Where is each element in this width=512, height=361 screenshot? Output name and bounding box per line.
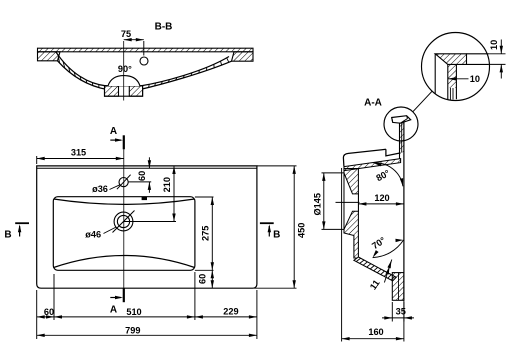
- backsplash hump: [343, 149, 386, 166]
- svg-text:275: 275: [201, 226, 211, 241]
- svg-text:60: 60: [137, 171, 147, 181]
- rim cap (small circle): [392, 116, 411, 124]
- svg-text:799: 799: [125, 325, 140, 335]
- faucet hole plan: [119, 178, 128, 187]
- marker A bottom: [110, 297, 121, 299]
- right wall outer edge: [403, 121, 405, 301]
- svg-text:315: 315: [71, 147, 86, 157]
- svg-text:B: B: [4, 229, 11, 240]
- svg-text:B-B: B-B: [155, 22, 173, 33]
- svg-text:510: 510: [126, 307, 141, 317]
- dim 11 thickness: [384, 260, 391, 283]
- drain dome: [108, 76, 140, 86]
- rim left block: [38, 52, 61, 61]
- drain block: [105, 86, 143, 96]
- bottom dim chain: [36, 290, 38, 339]
- countertop outline: [37, 166, 257, 288]
- section cut line A: [123, 135, 125, 149]
- overflow slot: [142, 197, 147, 200]
- svg-text:A: A: [110, 126, 117, 137]
- centerline hole: [336, 201, 360, 203]
- rim wall section strip (detail): [448, 64, 457, 88]
- dim 120: [358, 203, 404, 205]
- svg-text:229: 229: [223, 307, 238, 317]
- rim wall below cap: [400, 123, 404, 152]
- rim right block: [232, 52, 254, 61]
- dim 60 bottom: [211, 270, 213, 288]
- svg-text:120: 120: [374, 193, 389, 203]
- svg-text:A: A: [110, 304, 117, 315]
- svg-text:75: 75: [121, 29, 131, 39]
- basin top arc: [54, 199, 195, 204]
- svg-text:450: 450: [297, 223, 307, 238]
- bowl outer curve: [58, 61, 232, 91]
- svg-text:ø46: ø46: [85, 229, 101, 239]
- basin bowl hatch (between curves): [58, 55, 229, 88]
- svg-text:10: 10: [470, 74, 480, 84]
- basin bottom arc: [54, 256, 195, 268]
- rear wall column (hatched): [344, 169, 358, 259]
- rim wall face (detail): [434, 54, 436, 94]
- countertop band (hatched): [344, 159, 401, 171]
- dim 35: [391, 302, 393, 322]
- dim 450: [257, 165, 297, 167]
- dim phi145: [322, 172, 344, 174]
- svg-text:10: 10: [489, 40, 499, 50]
- marker B left: [15, 222, 29, 224]
- svg-text:160: 160: [368, 327, 383, 337]
- centerline drain: [123, 41, 125, 101]
- svg-text:B: B: [273, 229, 280, 240]
- basin floor band (hatched): [354, 257, 396, 281]
- dim 10 vertical (detail): [489, 53, 506, 55]
- faucet hole circle (B-B): [140, 57, 148, 65]
- svg-text:Ø145: Ø145: [313, 193, 323, 215]
- dim 60 top: [148, 157, 150, 168]
- angle 70deg: [373, 240, 404, 258]
- leader line to small circle: [413, 91, 432, 112]
- dim 210: [173, 166, 175, 222]
- drain plan: [114, 212, 133, 231]
- dim 10 horizontal (detail): [448, 78, 469, 80]
- angle 80deg: [374, 163, 403, 186]
- svg-text:A-A: A-A: [364, 98, 382, 109]
- countertop second top line: [37, 167, 257, 169]
- dim 275: [195, 196, 214, 198]
- svg-text:ø36: ø36: [92, 184, 108, 194]
- basin outline: [53, 197, 195, 271]
- dim 160: [341, 168, 343, 342]
- detail circle: [422, 33, 490, 101]
- ledge drop edge: [386, 149, 401, 156]
- svg-text:210: 210: [162, 177, 172, 192]
- rim top band: [38, 48, 254, 52]
- svg-text:60: 60: [44, 307, 54, 317]
- bowl inner curve: [56, 52, 229, 88]
- svg-text:60: 60: [198, 274, 208, 284]
- bottom bar (hatched): [392, 273, 404, 301]
- rim top band (detail): [435, 54, 466, 65]
- marker A top: [110, 139, 121, 141]
- marker B right: [260, 222, 274, 224]
- small circle: [384, 107, 418, 141]
- dim 799: [37, 334, 257, 336]
- svg-text:90°: 90°: [118, 64, 132, 74]
- overflow cone void: [344, 173, 358, 229]
